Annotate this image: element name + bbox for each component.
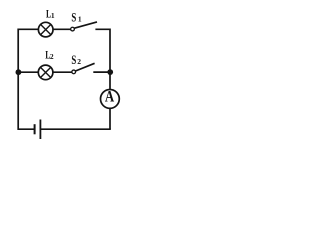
node: junction dot on right rail (branch 2) [107,69,113,75]
lamp L2 [38,65,53,80]
svg-text:2: 2 [77,57,81,66]
wire: S1 fixed contact to top-right corner and right rail down to ammeter [95,29,110,89]
wire: S2 fixed contact to right rail junction [93,71,110,73]
svg-text:2: 2 [50,52,54,61]
switch S2 [72,63,95,73]
ammeter A [101,89,120,109]
wire: bottom wire from battery negative plate to left rail [18,128,35,130]
wire: lamp L1 to switch S1 [53,28,71,30]
svg-text:S: S [71,53,76,67]
svg-text:1: 1 [78,14,82,23]
battery: long plate (positive) [39,120,41,140]
node: junction dot on left rail (branch 2) [16,69,22,75]
svg-text:1: 1 [51,11,55,20]
wire: right rail below ammeter [109,109,111,130]
lamp L1 [38,22,53,37]
svg-text:S: S [71,10,76,24]
svg-text:A: A [105,89,115,106]
wire: bottom wire from right rail to battery positive plate [40,128,110,130]
wire: lamp L2 to switch S2 [52,71,71,73]
wire: left rail + top-left segment [18,29,38,130]
wire: branch 2 from left rail to lamp L2 [18,71,38,73]
switch S1 [71,22,97,31]
battery: short plate (negative) [34,124,36,134]
